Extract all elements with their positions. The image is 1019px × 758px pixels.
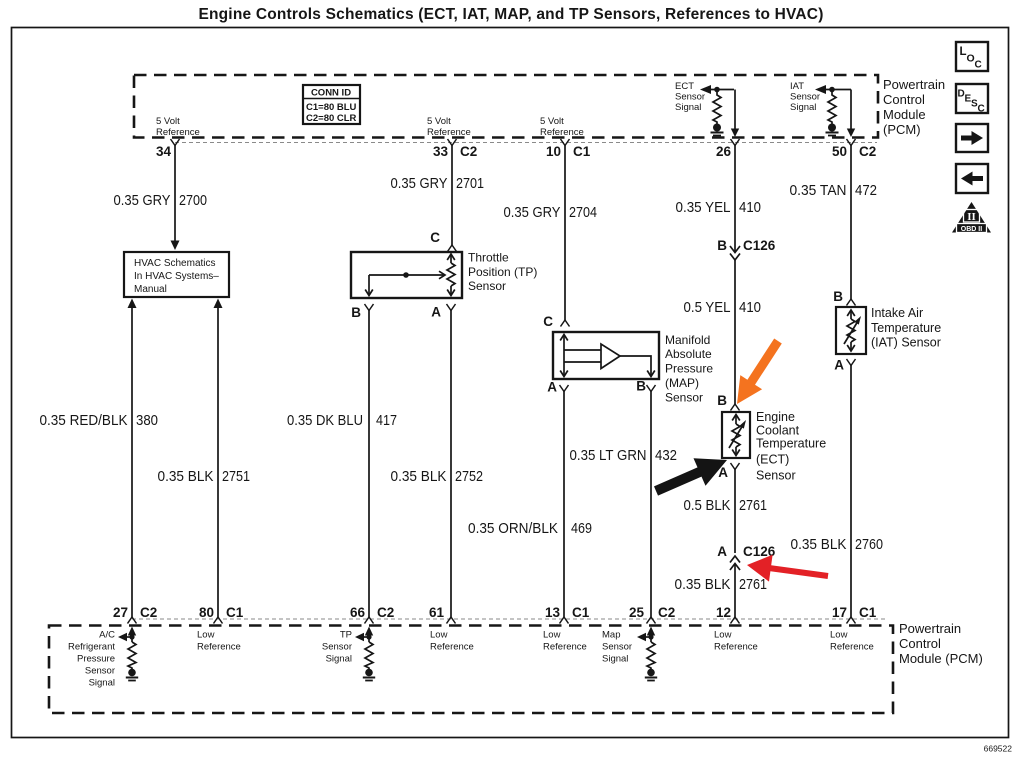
TP signal input circuit (pin 66) xyxy=(355,627,373,643)
wire label 0.5 YEL 410 xyxy=(684,299,762,316)
IAT sensor signal label xyxy=(790,81,820,113)
wire HVAC left to pin 27 xyxy=(128,299,137,618)
MAP sensor name label xyxy=(665,333,713,405)
svg-text:472: 472 xyxy=(855,182,877,199)
TP pin A connector xyxy=(431,304,455,320)
svg-text:25: 25 xyxy=(629,605,645,620)
pin 12 connector xyxy=(716,605,740,624)
svg-text:C2=80 CLR: C2=80 CLR xyxy=(306,113,357,124)
svg-text:50: 50 xyxy=(832,144,847,159)
svg-text:Coolant: Coolant xyxy=(756,424,800,438)
svg-text:Reference: Reference xyxy=(540,127,584,138)
svg-text:Engine Controls Schematics (EC: Engine Controls Schematics (ECT, IAT, MA… xyxy=(198,6,823,23)
svg-text:Temperature: Temperature xyxy=(756,437,826,451)
in-line connector C126 pin A xyxy=(717,544,776,570)
svg-text:(IAT) Sensor: (IAT) Sensor xyxy=(871,336,941,350)
svg-text:Signal: Signal xyxy=(326,654,352,665)
svg-text:(PCM): (PCM) xyxy=(883,122,921,137)
svg-text:669522: 669522 xyxy=(984,744,1013,754)
svg-text:410: 410 xyxy=(739,299,761,316)
svg-text:12: 12 xyxy=(716,605,731,620)
svg-text:Reference: Reference xyxy=(427,127,471,138)
svg-text:Reference: Reference xyxy=(430,642,474,653)
svg-text:Low: Low xyxy=(714,630,732,641)
svg-text:432: 432 xyxy=(655,447,677,464)
IAT sensor box xyxy=(836,307,866,354)
svg-text:Sensor: Sensor xyxy=(665,391,703,405)
svg-text:Throttle: Throttle xyxy=(468,251,509,265)
wire pin34 to HVAC xyxy=(171,146,180,251)
wire label 0.5 BLK 2761 xyxy=(684,497,768,514)
map sensor signal label xyxy=(602,630,632,665)
svg-text:2761: 2761 xyxy=(739,576,767,593)
OBD II icon triangle xyxy=(952,202,991,233)
wire MAP A to pin 13 xyxy=(563,392,565,618)
resistor (MAP signal) xyxy=(647,642,655,669)
wire ECT signal to pin 26 xyxy=(731,90,739,138)
wire label 0.35 TAN 472 xyxy=(790,182,878,199)
resistor (TP signal) xyxy=(365,642,373,669)
svg-text:Sensor: Sensor xyxy=(468,279,506,293)
PCM connector row thin dashed line (bottom) xyxy=(132,618,886,620)
black callout arrow (points to ECT pin A) xyxy=(654,458,727,495)
wire label 0.35 LT GRN 432 xyxy=(570,447,678,464)
svg-text:Position (TP): Position (TP) xyxy=(468,265,537,279)
LOC icon box xyxy=(956,42,988,71)
svg-text:2700: 2700 xyxy=(179,192,207,209)
svg-text:A: A xyxy=(547,380,557,395)
ground (TP signal) xyxy=(363,669,375,681)
svg-text:Reference: Reference xyxy=(197,642,241,653)
svg-text:C: C xyxy=(430,230,440,245)
svg-text:0.35 BLK: 0.35 BLK xyxy=(391,468,447,485)
wire IAT signal to pin 50 xyxy=(847,90,855,138)
TP sensor name label xyxy=(468,251,537,294)
wire label 0.35 DK BLU 417 xyxy=(287,412,397,429)
wire pin50 to IAT pin B xyxy=(833,146,855,306)
svg-text:C: C xyxy=(978,104,985,115)
in-line connector C126 pin B xyxy=(717,238,776,260)
svg-text:17: 17 xyxy=(832,605,847,620)
svg-text:Control: Control xyxy=(899,636,941,651)
svg-text:B: B xyxy=(717,238,727,253)
svg-text:61: 61 xyxy=(429,605,445,620)
IAT signal left arrow xyxy=(815,85,851,94)
svg-text:CONN ID: CONN ID xyxy=(311,88,351,99)
svg-text:OBD II: OBD II xyxy=(961,226,982,233)
svg-text:(MAP): (MAP) xyxy=(665,376,699,390)
resistor (IAT signal pull-up) xyxy=(828,90,836,125)
svg-text:Manifold: Manifold xyxy=(665,333,710,347)
svg-text:Pressure: Pressure xyxy=(665,362,713,376)
svg-text:IAT: IAT xyxy=(790,81,804,92)
svg-text:B: B xyxy=(833,289,843,304)
svg-text:ECT: ECT xyxy=(675,81,694,92)
svg-text:13: 13 xyxy=(545,605,561,620)
pin 50 C2 connector xyxy=(832,139,876,159)
svg-text:27: 27 xyxy=(113,605,128,620)
low reference label (pin 12) xyxy=(714,630,758,653)
MAP pin B connector xyxy=(636,379,655,394)
svg-text:A/C: A/C xyxy=(99,630,115,641)
svg-text:Powertrain: Powertrain xyxy=(899,621,961,636)
svg-text:C1=80 BLU: C1=80 BLU xyxy=(306,102,357,113)
svg-text:0.5 BLK: 0.5 BLK xyxy=(684,497,731,514)
svg-text:Signal: Signal xyxy=(602,654,628,665)
svg-text:Map: Map xyxy=(602,630,620,641)
wire C126 A to pin 12 xyxy=(734,564,736,617)
svg-text:A: A xyxy=(431,305,441,320)
resistor (A/C signal) xyxy=(128,642,136,669)
svg-text:Engine: Engine xyxy=(756,410,795,424)
svg-text:A: A xyxy=(717,544,727,559)
svg-text:C2: C2 xyxy=(859,144,876,159)
IAT sensor name label xyxy=(871,306,941,350)
svg-text:0.35 GRY: 0.35 GRY xyxy=(114,192,171,209)
svg-text:C1: C1 xyxy=(573,144,591,159)
ground (MAP signal) xyxy=(645,669,657,681)
pin 34 connector xyxy=(156,139,180,159)
wire label 0.35 YEL 410 xyxy=(676,199,762,216)
svg-text:C1: C1 xyxy=(859,605,877,620)
svg-text:Module: Module xyxy=(883,107,926,122)
HVAC schematics box xyxy=(124,252,229,297)
svg-text:Reference: Reference xyxy=(543,642,587,653)
TP pin B connector xyxy=(351,304,373,320)
svg-text:10: 10 xyxy=(546,144,561,159)
svg-text:2751: 2751 xyxy=(222,468,250,485)
PCM bottom label xyxy=(899,621,983,666)
svg-text:C2: C2 xyxy=(658,605,675,620)
svg-text:2760: 2760 xyxy=(855,536,883,553)
DESC icon box xyxy=(956,84,988,115)
low reference label (pin 13) xyxy=(543,630,587,653)
pin 66 C2 connector xyxy=(350,605,394,624)
low reference label (pin 17) xyxy=(830,630,874,653)
ECT thermistor element xyxy=(729,415,746,456)
wire pin10 to MAP sensor pin C xyxy=(543,146,569,330)
wire label 0.35 BLK 2752 xyxy=(391,468,484,485)
svg-text:Powertrain: Powertrain xyxy=(883,77,945,92)
back arrow icon box xyxy=(956,164,988,193)
svg-text:B: B xyxy=(717,393,727,408)
svg-text:0.35 BLK: 0.35 BLK xyxy=(158,468,214,485)
pin 26 connector xyxy=(716,139,740,159)
svg-text:C1: C1 xyxy=(572,605,590,620)
wire label 0.35 GRY 2704 xyxy=(504,204,598,221)
wire ECT A to connector C126 pin A xyxy=(734,470,736,554)
PCM top label xyxy=(883,77,945,137)
TP sensor wiper arm xyxy=(365,271,445,295)
wire label 0.35 BLK 2751 xyxy=(158,468,251,485)
MAP sensor box xyxy=(553,332,659,379)
svg-text:80: 80 xyxy=(199,605,214,620)
ECT signal left arrow xyxy=(700,85,734,94)
wire pin26 to connector C126 pin B xyxy=(734,146,736,253)
PCM bottom module box xyxy=(49,626,893,714)
IAT pin A connector xyxy=(834,358,855,373)
svg-text:Sensor: Sensor xyxy=(322,642,352,653)
svg-text:II: II xyxy=(967,211,976,223)
IAT thermistor element xyxy=(844,310,861,351)
svg-text:C: C xyxy=(975,60,982,71)
wire pin33 to TP sensor pin C xyxy=(430,146,456,252)
svg-text:Sensor: Sensor xyxy=(675,92,705,103)
red callout arrow (points to connector C126 pin A) xyxy=(747,555,828,582)
pin 80 C1 connector xyxy=(199,605,244,624)
svg-text:Reference: Reference xyxy=(714,642,758,653)
A/C refrigerant pressure sensor signal label xyxy=(68,630,115,689)
svg-text:0.5 YEL: 0.5 YEL xyxy=(684,299,731,316)
svg-text:0.35 ORN/BLK: 0.35 ORN/BLK xyxy=(468,520,558,537)
svg-text:Sensor: Sensor xyxy=(85,666,115,677)
svg-text:Signal: Signal xyxy=(89,678,115,689)
svg-text:Sensor: Sensor xyxy=(602,642,632,653)
ECT pin A connector xyxy=(718,463,739,480)
svg-text:Low: Low xyxy=(830,630,848,641)
5 volt reference label 2 xyxy=(427,116,471,138)
svg-text:Refrigerant: Refrigerant xyxy=(68,642,115,653)
svg-text:5 Volt: 5 Volt xyxy=(540,116,564,127)
svg-text:Low: Low xyxy=(543,630,561,641)
svg-text:Absolute: Absolute xyxy=(665,347,712,361)
svg-text:Module (PCM): Module (PCM) xyxy=(899,651,983,666)
wire label 0.35 RED/BLK 380 xyxy=(40,412,159,429)
svg-text:Reference: Reference xyxy=(830,642,874,653)
svg-text:B: B xyxy=(636,379,646,394)
wire TP A to pin 61 xyxy=(450,311,452,618)
svg-text:33: 33 xyxy=(433,144,449,159)
svg-text:Low: Low xyxy=(430,630,448,641)
CONN ID table xyxy=(303,85,360,124)
svg-text:In HVAC Systems–: In HVAC Systems– xyxy=(134,271,219,282)
low reference label (pin 80) xyxy=(197,630,241,653)
wire IAT A to pin 17 xyxy=(850,366,852,618)
ECT signal junction dot xyxy=(714,87,720,93)
svg-text:2704: 2704 xyxy=(569,204,597,221)
svg-text:C126: C126 xyxy=(743,238,776,253)
svg-text:Control: Control xyxy=(883,92,925,107)
svg-text:410: 410 xyxy=(739,199,761,216)
svg-text:L: L xyxy=(960,46,967,58)
svg-text:2701: 2701 xyxy=(456,175,484,192)
svg-text:0.35 BLK: 0.35 BLK xyxy=(791,536,847,553)
wire TP B to pin 66 xyxy=(368,311,370,618)
svg-text:2761: 2761 xyxy=(739,497,767,514)
pin 27 C2 connector xyxy=(113,605,157,624)
svg-text:417: 417 xyxy=(376,412,397,429)
resistor (ECT signal pull-up) xyxy=(713,90,721,125)
svg-text:TP: TP xyxy=(340,630,352,641)
pin 13 C1 connector xyxy=(545,605,590,624)
svg-text:Manual: Manual xyxy=(134,284,167,295)
svg-text:A: A xyxy=(834,358,844,373)
svg-text:0.35 TAN: 0.35 TAN xyxy=(790,182,847,199)
TP sensor resistor element xyxy=(447,254,455,296)
svg-text:HVAC Schematics: HVAC Schematics xyxy=(134,258,216,269)
pin 10 C1 connector xyxy=(546,139,591,159)
ECT sensor name label xyxy=(756,410,826,483)
svg-text:34: 34 xyxy=(156,144,172,159)
svg-text:(ECT): (ECT) xyxy=(756,453,789,467)
ECT sensor box xyxy=(722,412,750,458)
throttle position sensor box xyxy=(351,252,462,298)
svg-text:380: 380 xyxy=(136,412,158,429)
svg-text:Temperature: Temperature xyxy=(871,321,941,335)
svg-text:B: B xyxy=(351,305,361,320)
pin 61 connector xyxy=(429,605,456,624)
ground (A/C signal) xyxy=(126,669,138,681)
svg-text:Signal: Signal xyxy=(675,102,701,113)
wire label 0.35 BLK 2760 xyxy=(791,536,884,553)
svg-text:0.35 GRY: 0.35 GRY xyxy=(504,204,561,221)
svg-text:0.35 YEL: 0.35 YEL xyxy=(676,199,731,216)
pin 17 C1 connector xyxy=(832,605,877,624)
5 volt reference label 3 xyxy=(540,116,584,138)
svg-text:Sensor: Sensor xyxy=(756,469,796,483)
orange callout arrow (points to ECT pin B) xyxy=(737,339,782,405)
MAP signal input circuit (pin 25) xyxy=(637,627,655,643)
PCM top module box xyxy=(134,75,878,138)
svg-text:Signal: Signal xyxy=(790,102,816,113)
svg-text:26: 26 xyxy=(716,144,732,159)
svg-text:0.35 DK BLU: 0.35 DK BLU xyxy=(287,412,363,429)
svg-text:5 Volt: 5 Volt xyxy=(156,116,180,127)
wire MAP B to pin 25 xyxy=(650,392,652,618)
PCM connector row thin dashed line (top) xyxy=(175,142,877,144)
svg-text:O: O xyxy=(967,53,975,65)
svg-text:Reference: Reference xyxy=(156,127,200,138)
svg-text:0.35 BLK: 0.35 BLK xyxy=(675,576,731,593)
ground (ECT signal) xyxy=(711,124,724,136)
IAT signal junction dot xyxy=(829,87,835,93)
MAP sensor internal supply line xyxy=(560,335,568,377)
wire C126 to ECT pin B xyxy=(717,260,739,411)
5 volt reference label 1 xyxy=(156,116,200,138)
ECT sensor signal label xyxy=(675,81,705,113)
wire label 0.35 ORN/BLK 469 xyxy=(468,520,592,537)
TP sensor signal label xyxy=(322,630,352,665)
svg-text:Intake Air: Intake Air xyxy=(871,306,923,320)
svg-text:C2: C2 xyxy=(140,605,157,620)
svg-text:469: 469 xyxy=(571,520,592,537)
svg-text:C1: C1 xyxy=(226,605,244,620)
ground (IAT signal) xyxy=(826,124,839,136)
svg-text:5 Volt: 5 Volt xyxy=(427,116,451,127)
wire HVAC right to pin 80 xyxy=(214,299,223,618)
svg-text:C: C xyxy=(543,314,553,329)
svg-text:C2: C2 xyxy=(377,605,394,620)
svg-text:2752: 2752 xyxy=(455,468,483,485)
pin 25 C2 connector xyxy=(629,605,675,624)
wire label 0.35 GRY 2701 xyxy=(391,175,485,192)
svg-text:0.35 LT GRN: 0.35 LT GRN xyxy=(570,447,647,464)
wire label 0.35 BLK 2761 xyxy=(675,576,768,593)
svg-text:Low: Low xyxy=(197,630,215,641)
svg-text:C2: C2 xyxy=(460,144,477,159)
svg-text:Sensor: Sensor xyxy=(790,92,820,103)
svg-text:66: 66 xyxy=(350,605,366,620)
forward arrow icon box xyxy=(956,124,988,152)
svg-text:0.35 GRY: 0.35 GRY xyxy=(391,175,448,192)
low reference label (pin 61) xyxy=(430,630,474,653)
svg-text:Pressure: Pressure xyxy=(77,654,115,665)
pin 33 C2 connector xyxy=(433,139,477,159)
MAP pin A connector xyxy=(547,380,568,395)
A/C signal input circuit (pin 27) xyxy=(118,627,136,643)
svg-text:0.35 RED/BLK: 0.35 RED/BLK xyxy=(40,412,128,429)
wire label 0.35 GRY 2700 xyxy=(114,192,208,209)
MAP sensor amplifier element xyxy=(564,344,655,377)
